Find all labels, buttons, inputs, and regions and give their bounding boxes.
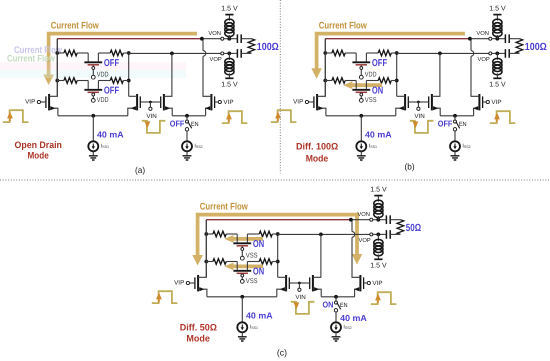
resistor RL load (c)	[397, 220, 404, 235]
svg-text:VON: VON	[357, 211, 370, 218]
node VOP terminal (c)	[370, 233, 373, 236]
capacitor C2 (c)	[385, 233, 387, 235]
node VIP gate left (b)	[305, 100, 308, 103]
wire left rail (a)	[56, 39, 58, 97]
switch transistor SW2b (ON)	[352, 81, 370, 103]
resistor R1 (b)	[332, 50, 345, 56]
junction right rail row1 (a)	[127, 51, 131, 55]
enable switch EN (c)	[334, 301, 340, 312]
wire R4 to right rail (a)	[123, 80, 128, 82]
wire ISS1 to ground (a)	[92, 151, 94, 156]
transistor M3a	[161, 53, 173, 115]
node VIN terminal (b)	[417, 102, 419, 107]
wire row2 left (c)	[206, 261, 213, 263]
svg-text:Current Flow: Current Flow	[319, 21, 367, 32]
switch transistor SW2a (OFF)	[84, 81, 102, 103]
wire C1 to load (c)	[0, 0, 1, 1]
node VON terminal (a)	[221, 37, 224, 40]
wire row2 left (b)	[325, 80, 332, 82]
wire SW2 to R4 (c)	[247, 261, 259, 263]
ground ISS1 (b)	[357, 156, 366, 160]
resistor R3 (c)	[213, 259, 226, 265]
pulse waveform VIN (c)	[291, 302, 315, 314]
wire M3 gate to VIN (c)	[299, 282, 309, 284]
wire ISS2 to ground (c)	[335, 332, 337, 337]
svg-text:1.5 V: 1.5 V	[370, 262, 387, 269]
wire VON net top (c)	[206, 219, 351, 221]
svg-text:Mode: Mode	[306, 153, 329, 164]
wire tail pair1 (c)	[207, 296, 277, 298]
transistor M1a	[46, 39, 58, 116]
wire VOP net (a)	[129, 52, 221, 54]
junction tail ISS1 (a)	[91, 114, 95, 118]
wire R4 to right rail (c)	[272, 261, 277, 263]
supply bar bottom (b)	[493, 77, 501, 79]
pulse waveform VIP left (b)	[271, 110, 297, 122]
node VIP gate left (c)	[186, 281, 189, 284]
wire tail to EN (b)	[454, 116, 456, 120]
junction right rail row2 (c)	[276, 260, 280, 264]
svg-text:100Ω: 100Ω	[525, 42, 547, 53]
svg-text:ISS2: ISS2	[462, 143, 470, 149]
junction M3 drain VOP (a)	[170, 52, 174, 56]
wire row1 left (b)	[325, 52, 332, 54]
artifact stripe cyan	[0, 70, 186, 78]
junction tail ISS2 (c)	[334, 295, 338, 299]
svg-text:40 mA: 40 mA	[246, 310, 273, 320]
junction M3 drain VOP (c)	[319, 233, 323, 237]
wire VON to load (a)	[224, 38, 236, 40]
wire tail pair2 (a)	[172, 115, 205, 117]
svg-text:VSS: VSS	[246, 278, 258, 285]
node VON terminal (b)	[489, 37, 492, 40]
wire M2 gate to VIN (b)	[408, 101, 418, 103]
current source ISS1 (c)	[237, 322, 247, 332]
junction right rail row2 (a)	[127, 79, 131, 83]
current flow arrow (b)	[311, 34, 465, 79]
pulse waveform VIP right (c)	[371, 292, 397, 304]
wire VOP to L2 (b)	[496, 53, 498, 60]
wire R3 to SW2 (b)	[345, 80, 356, 82]
node VIP gate left (a)	[37, 100, 40, 103]
wire L2 to supply (b)	[496, 73, 498, 78]
inductor L2 (a)	[225, 58, 234, 64]
resistor RL load (b)	[516, 39, 523, 54]
wire tail to ISS1 (a)	[92, 116, 94, 142]
supply bar bottom (a)	[225, 77, 233, 79]
wire SW1 to R2 (c)	[247, 233, 259, 235]
wire left rail (c)	[205, 220, 207, 278]
resistor R4 (c)	[259, 259, 272, 265]
svg-text:VIP: VIP	[223, 99, 233, 106]
wire L2 to supply (c)	[377, 254, 379, 259]
svg-text:EN: EN	[459, 121, 467, 128]
svg-text:(a): (a)	[135, 165, 145, 175]
wire right rail (a)	[128, 53, 130, 96]
separator vertical dotted	[279, 0, 281, 173]
svg-text:Diff. 100Ω: Diff. 100Ω	[296, 141, 339, 152]
svg-text:40 mA: 40 mA	[365, 129, 392, 139]
transistor M4b	[471, 39, 483, 116]
wire SW1 to R2 (a)	[98, 52, 110, 54]
svg-text:VDD: VDD	[365, 72, 377, 79]
wire C1 to load (a)	[0, 0, 1, 1]
wire L1 to VON (b)	[496, 35, 498, 39]
current flow arrow through SW1 (c)	[224, 235, 263, 243]
svg-text:VDD: VDD	[97, 72, 109, 79]
wire R2 to right rail (a)	[123, 52, 128, 54]
transistor M3c	[310, 234, 322, 296]
separator horizontal dotted	[0, 179, 550, 181]
junction VON-inductor (c)	[376, 218, 380, 222]
wire VOP to L2 (a)	[228, 53, 230, 60]
junction left rail row2 (a)	[55, 79, 59, 83]
svg-text:OFF: OFF	[372, 58, 387, 69]
svg-text:ISS2: ISS2	[343, 324, 351, 330]
svg-text:Mode: Mode	[28, 150, 49, 161]
transistor M1b	[314, 39, 326, 116]
svg-text:ISS2: ISS2	[194, 143, 202, 149]
wire ISS1 to ground (b)	[360, 151, 362, 156]
wire row2 left (a)	[57, 80, 64, 82]
transistor M4a	[203, 39, 215, 116]
svg-text:ON: ON	[253, 267, 264, 278]
wire supply to L1 (b)	[496, 15, 498, 20]
junction tail ISS1 (b)	[359, 114, 363, 118]
switch transistor SW2c (ON)	[233, 262, 251, 284]
current flow arrow through SW2 (c)	[224, 263, 263, 271]
svg-text:VIP: VIP	[25, 99, 35, 106]
ground ISS1 (a)	[89, 156, 98, 160]
transistor M2b	[396, 94, 409, 116]
svg-text:ISS1: ISS1	[101, 143, 109, 149]
ground ISS2 (b)	[451, 156, 460, 160]
svg-text:VON: VON	[208, 30, 221, 37]
pulse waveform VIN (b)	[410, 121, 434, 133]
supply bar top (a)	[225, 14, 233, 16]
junction tail ISS2 (a)	[185, 114, 189, 118]
switch transistor SW1c (ON)	[233, 234, 251, 260]
wire VON net top (b)	[325, 38, 470, 40]
junction VIN (b)	[417, 101, 420, 104]
junction tail ISS1 (c)	[240, 295, 244, 299]
node VIP gate right (a)	[218, 100, 221, 103]
wire L2 to supply (a)	[228, 73, 230, 78]
svg-text:VIP: VIP	[293, 99, 303, 106]
svg-text:VIP: VIP	[174, 280, 184, 287]
current source ISS2 (c)	[331, 322, 341, 332]
switch transistor SW1a (OFF)	[84, 53, 102, 79]
switch transistor SW1b (OFF)	[352, 53, 370, 79]
svg-text:ON: ON	[253, 239, 264, 250]
wire M2 gate to VIN (a)	[140, 101, 150, 103]
wire tail pair1 (a)	[58, 115, 128, 117]
wire EN to ISS2 (a)	[186, 131, 188, 142]
node VIN terminal (c)	[298, 283, 300, 288]
wire tail pair1 (b)	[326, 115, 396, 117]
current source ISS1 (b)	[356, 141, 366, 151]
resistor R4 (a)	[110, 78, 123, 84]
supply bar top (b)	[493, 14, 501, 16]
svg-text:1.5 V: 1.5 V	[221, 6, 238, 13]
junction M4 drain VON (b)	[468, 37, 472, 41]
wire tail to ISS1 (b)	[360, 116, 362, 142]
current flow arrow (c)	[192, 214, 362, 266]
svg-text:1.5 V: 1.5 V	[370, 187, 387, 194]
svg-text:ON: ON	[372, 86, 383, 97]
wire M2 gate to VIN (c)	[289, 282, 299, 284]
junction VIN (c)	[298, 282, 301, 285]
wire right rail (b)	[396, 53, 398, 96]
junction left rail row2 (c)	[204, 260, 208, 264]
capacitor C1 (b)	[504, 38, 506, 40]
ground ISS2 (a)	[183, 156, 192, 160]
junction VOP-inductor (a)	[227, 52, 231, 56]
svg-text:1.5 V: 1.5 V	[489, 6, 506, 13]
junction M4 drain VON (c)	[349, 218, 353, 222]
svg-text:OFF: OFF	[438, 118, 453, 128]
svg-text:VSS: VSS	[365, 97, 377, 104]
wire VON to load (c)	[373, 219, 385, 221]
wire VOP to L2 (c)	[377, 234, 379, 241]
svg-text:(c): (c)	[277, 348, 287, 358]
junction VON-inductor (a)	[227, 37, 231, 41]
resistor R3 (b)	[332, 78, 345, 84]
wire VOP net (b)	[397, 52, 489, 54]
svg-text:EN: EN	[340, 302, 348, 309]
transistor M2a	[128, 94, 141, 116]
svg-text:VOP: VOP	[359, 237, 371, 244]
svg-text:1.5 V: 1.5 V	[489, 81, 506, 88]
capacitor C1 (a)	[236, 38, 238, 40]
wire VOP to load (a)	[224, 52, 236, 54]
wire VOP to load (b)	[492, 52, 504, 54]
wire R2 to right rail (b)	[391, 52, 396, 54]
pulse waveform VIP right (b)	[490, 111, 516, 123]
wire row1 left (c)	[206, 233, 213, 235]
wire ISS2 to ground (a)	[186, 151, 188, 156]
current source ISS2 (b)	[450, 141, 460, 151]
pulse waveform VIN (a)	[142, 121, 166, 133]
svg-text:VDD: VDD	[97, 97, 109, 104]
resistor R3 (a)	[64, 78, 77, 84]
node VIN terminal (a)	[149, 102, 151, 107]
junction left rail row1 (b)	[323, 51, 327, 55]
wire R3 to SW2 (c)	[226, 261, 237, 263]
junction right rail row1 (c)	[276, 232, 280, 236]
resistor R2 (b)	[378, 50, 391, 56]
svg-text:100Ω: 100Ω	[257, 42, 279, 53]
pulse waveform VIP right (a)	[222, 111, 248, 123]
current source ISS1 (a)	[88, 141, 98, 151]
inductor L1 (b)	[493, 19, 502, 26]
wire supply to L1 (c)	[377, 196, 379, 201]
node VOP terminal (a)	[221, 52, 224, 55]
svg-text:VOP: VOP	[478, 56, 490, 63]
svg-text:VIP: VIP	[491, 99, 501, 106]
svg-text:(b): (b)	[405, 162, 415, 172]
transistor M1c	[195, 220, 207, 297]
wire VON to load (b)	[492, 38, 504, 40]
wire ISS2 to ground (b)	[454, 151, 456, 156]
supply bar bottom (c)	[374, 258, 382, 260]
resistor R1 (c)	[213, 231, 226, 237]
svg-text:Open Drain: Open Drain	[15, 139, 63, 150]
current source ISS2 (a)	[182, 141, 192, 151]
current flow arrow through SW2 (b)	[343, 81, 382, 89]
resistor R4 (b)	[378, 78, 391, 84]
resistor R2 (a)	[110, 50, 123, 56]
capacitor C2 (a)	[236, 52, 238, 54]
svg-text:Diff. 50Ω: Diff. 50Ω	[180, 322, 218, 333]
svg-text:VIN: VIN	[146, 113, 156, 120]
svg-text:EN: EN	[191, 121, 199, 128]
svg-text:40 mA: 40 mA	[97, 129, 124, 139]
wire right rail (c)	[277, 234, 279, 277]
svg-text:VIN: VIN	[295, 294, 305, 301]
wire VOP to load (c)	[373, 233, 385, 235]
svg-text:VOP: VOP	[210, 56, 222, 63]
wire tail to EN (c)	[335, 297, 337, 301]
transistor M2c	[277, 275, 290, 297]
wire ISS1 to ground (c)	[241, 332, 243, 337]
supply bar top (c)	[374, 195, 382, 197]
inductor L2 (b)	[493, 58, 502, 64]
junction right rail row2 (b)	[395, 79, 399, 83]
wire tail pair2 (b)	[440, 115, 473, 117]
inductor L1 (a)	[225, 19, 234, 26]
capacitor C2 (b)	[504, 52, 506, 54]
artifact stripe pink	[0, 63, 186, 71]
svg-text:ISS1: ISS1	[369, 143, 377, 149]
svg-text:OFF: OFF	[170, 118, 185, 128]
wire M3 gate to VIN (b)	[418, 101, 428, 103]
junction M3 drain VOP (b)	[438, 52, 442, 56]
transistor M3b	[429, 53, 441, 115]
wire row1 left (a)	[57, 52, 64, 54]
svg-text:VSS: VSS	[246, 253, 258, 260]
junction left rail row1 (c)	[204, 232, 208, 236]
node VOP terminal (b)	[489, 52, 492, 55]
resistor R1 (a)	[64, 50, 77, 56]
junction VOP-inductor (c)	[376, 233, 380, 237]
junction left rail row1 (a)	[55, 51, 59, 55]
svg-text:Current Flow: Current Flow	[200, 202, 248, 213]
wire M3 gate to VIN (a)	[150, 101, 160, 103]
inductor L2 (c)	[374, 239, 383, 245]
enable switch EN (b)	[453, 120, 459, 131]
node VIP gate right (c)	[367, 281, 370, 284]
wire tail to EN (a)	[186, 116, 188, 120]
svg-text:OFF: OFF	[104, 86, 119, 97]
resistor R2 (c)	[259, 231, 272, 237]
svg-text:VIP: VIP	[372, 280, 382, 287]
svg-text:Mode: Mode	[186, 332, 210, 343]
svg-text:OFF: OFF	[104, 58, 119, 69]
wire tail to ISS1 (c)	[241, 297, 243, 323]
resistor RL load (a)	[248, 39, 255, 54]
node VON terminal (c)	[370, 218, 373, 221]
svg-text:40 mA: 40 mA	[340, 313, 367, 323]
svg-text:Current Flow: Current Flow	[51, 21, 99, 32]
junction VON-inductor (b)	[495, 37, 499, 41]
wire R1 to SW1 (c)	[226, 233, 237, 235]
pulse waveform VIP left (a)	[3, 110, 29, 122]
junction left rail row2 (b)	[323, 79, 327, 83]
junction M4 drain VON (a)	[200, 37, 204, 41]
wire L1 to VON (a)	[228, 35, 230, 39]
svg-text:ISS1: ISS1	[250, 324, 258, 330]
capacitor C1 (c)	[385, 219, 387, 221]
wire VOP net (c)	[278, 233, 370, 235]
wire EN to ISS2 (b)	[454, 131, 456, 142]
wire R4 to right rail (b)	[391, 80, 396, 82]
svg-text:50Ω: 50Ω	[406, 223, 421, 234]
wire supply to L1 (a)	[228, 15, 230, 20]
svg-text:VON: VON	[476, 30, 489, 37]
wire R1 to SW1 (a)	[77, 52, 88, 54]
current flow arrow (a)	[43, 34, 197, 85]
ground ISS1 (c)	[238, 337, 247, 341]
wire R3 to SW2 (a)	[77, 80, 88, 82]
ground ISS2 (c)	[332, 337, 341, 341]
pulse waveform VIP left (c)	[152, 291, 178, 303]
wire SW1 to R2 (b)	[366, 52, 378, 54]
svg-text:VIN: VIN	[414, 113, 424, 120]
wire L1 to VON (c)	[377, 216, 379, 220]
junction VIN (a)	[149, 101, 152, 104]
svg-text:1.5 V: 1.5 V	[221, 81, 238, 88]
inductor L1 (c)	[374, 200, 383, 207]
transistor M4c	[352, 220, 364, 297]
wire EN to ISS2 (c)	[335, 312, 337, 323]
svg-text:ON: ON	[323, 299, 334, 309]
wire R1 to SW1 (b)	[345, 52, 356, 54]
node VIP gate right (b)	[486, 100, 489, 103]
junction tail ISS2 (b)	[453, 114, 457, 118]
enable switch EN (a)	[185, 120, 191, 131]
wire SW2 to R4 (b)	[366, 80, 378, 82]
wire SW2 to R4 (a)	[98, 80, 110, 82]
wire R2 to right rail (c)	[272, 233, 277, 235]
junction VOP-inductor (b)	[495, 52, 499, 56]
wire left rail (b)	[324, 39, 326, 97]
junction right rail row1 (b)	[395, 51, 399, 55]
wire C1 to load (b)	[0, 0, 1, 1]
wire tail pair2 (c)	[321, 296, 354, 298]
wire VON net top (a)	[57, 38, 202, 40]
